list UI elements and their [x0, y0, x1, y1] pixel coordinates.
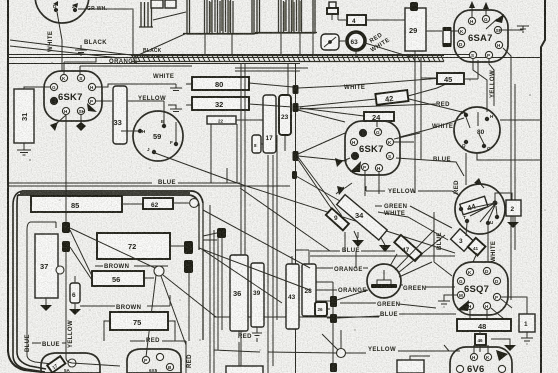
capacitor 1 [519, 314, 535, 332]
wire stubs from IF cans [205, 33, 313, 55]
eyelet circle right of 56 [154, 266, 164, 276]
capacitor 41 [468, 238, 486, 256]
wire H of 6SA7 down right side [503, 48, 515, 300]
resistor 45 [437, 73, 464, 84]
junction blob G on right border [184, 241, 193, 254]
capacitor 46 [475, 334, 486, 345]
ground under 31 [17, 143, 31, 155]
bottom-left section border right [199, 203, 203, 340]
capacitor 39 [251, 263, 264, 327]
wire 29 to 65 to K [426, 30, 458, 32]
wire 75 sides [104, 321, 175, 341]
wire blue horizontal [8, 183, 290, 186]
tube 6SK7 first [44, 71, 102, 121]
ground arrow below 34 b [381, 238, 385, 245]
ground left of resistor 80 [170, 84, 182, 91]
wire 72 right to border [144, 246, 186, 278]
small rect bottom mid [397, 360, 424, 373]
eyelet small circle bottom [337, 349, 346, 358]
junction blob A [293, 85, 299, 94]
wire vertical from 6SK7a H down to blobs [65, 115, 67, 358]
wire vertical to orange [345, 232, 356, 268]
wire blue2 long [214, 314, 456, 317]
wire 24 left [300, 108, 377, 127]
capacitor 36 [230, 255, 248, 331]
resistor 85 [31, 196, 122, 212]
junction blob D [292, 171, 297, 179]
shielded cable band [131, 56, 444, 62]
keyway arrow top of 44 [474, 178, 482, 185]
resistor 42 angled [375, 90, 408, 105]
wires fanning from junction B [298, 99, 436, 122]
resistor 31 [14, 89, 34, 143]
ground under 37 [45, 298, 47, 305]
wire horizontal to blob [203, 231, 226, 240]
wire left column to yellow bottom [66, 350, 336, 366]
resistor 9 angled [326, 208, 349, 230]
speaker plug circle (top left, partial) [35, 0, 89, 23]
wire from junction D to 34 [296, 176, 340, 201]
junction blob B [293, 103, 299, 112]
tube 6V6 [450, 347, 512, 373]
wire brown1 [95, 265, 168, 267]
capacitor 65 beside 6SA7 [443, 27, 452, 47]
IF transformer can 2 [255, 0, 317, 33]
wire orange2 [310, 289, 367, 291]
wire 85 to 62 to eyelet [122, 203, 189, 204]
resistor 22 [207, 116, 236, 124]
coil 63 [347, 32, 365, 50]
wire blue mid [310, 251, 455, 256]
ground under 2 [512, 216, 514, 222]
wires right of 6SK7b [394, 133, 420, 142]
wire SP to ground [502, 26, 523, 30]
oscillator coil 80 circle [454, 107, 500, 153]
volume control circle [367, 264, 401, 298]
wire blobs to 56 [70, 228, 155, 280]
resistor 56 [92, 271, 144, 286]
wire red bottom [130, 340, 186, 342]
center vertical bus [237, 63, 296, 373]
right vertical wire bundle mid [268, 135, 277, 373]
wire white to osc [400, 118, 464, 137]
tuning capacitor plates [139, 2, 153, 27]
capacitor 28 [302, 264, 316, 316]
wire J of 59 long diagonal to lower right [155, 153, 455, 253]
wire P H down to resistors [365, 171, 379, 196]
capacitor 29 [405, 8, 426, 51]
tube 6SK7 second [345, 121, 400, 175]
resistor 24 [364, 112, 394, 122]
wire H of 59 to 33 [121, 130, 138, 132]
wire 45 ends [421, 60, 478, 79]
resistor 62 [143, 198, 173, 209]
ground arrow below 6SK7 pin SH [80, 115, 82, 123]
wire blue bottom left [27, 343, 66, 364]
ground arrow lower left of 6SK7b [337, 186, 345, 195]
ground under 1 [521, 332, 533, 344]
resistor 48 [457, 319, 511, 331]
wire eyelet fan down [146, 275, 216, 357]
capacitor 2 [506, 200, 521, 216]
IF transformer can 1 [183, 0, 258, 34]
bottom-left section border top [18, 191, 203, 206]
wire yellow to 44 [366, 186, 460, 196]
chassis outer border right edge [541, 0, 545, 373]
wire volume to 47 fan [390, 230, 445, 277]
junction blob top of 29 [410, 2, 418, 11]
shielded cable lead-in diagonals [10, 40, 131, 58]
wire white vertical 44 to 6SQ7 [466, 223, 488, 262]
ground left of resistor 32 [168, 105, 182, 112]
bottom-left section border left [13, 191, 46, 372]
wire across to 6SQ7 area [434, 212, 452, 276]
resistor 72 [97, 233, 170, 259]
wire bottom connections [333, 322, 430, 372]
wire 28 43 tops [292, 250, 309, 264]
junction blob J [330, 296, 337, 307]
ground left of 6SQ7 [438, 295, 457, 307]
capacitor 33 [113, 86, 127, 144]
resistor 80 [192, 77, 249, 90]
wire 29 down verticals [415, 51, 421, 193]
junction blob I [217, 228, 226, 238]
wire red vertical osc to 44 [466, 153, 541, 185]
wire red vertical [186, 273, 189, 373]
wire YELLOW vertical from S [473, 59, 487, 112]
wires fanning from junction A white [298, 77, 455, 88]
capacitor 26 [315, 302, 327, 316]
capacitor 23 [279, 95, 291, 135]
grommet 62 top [321, 34, 339, 50]
tube 6SQ7 [453, 262, 508, 315]
wire 36 bottom [239, 331, 257, 366]
wire P to E (yellow) [96, 101, 164, 124]
pin Z of speaker plug [72, 3, 78, 12]
capacitor 3 [451, 229, 474, 251]
wire BLACK to 6SK7 grid cap [64, 57, 96, 74]
capacitor 4 [347, 15, 366, 25]
ground arrow left of 6SK7b [335, 158, 343, 167]
eyelet circle right of 62 [190, 199, 199, 208]
wires around 26 28 [316, 282, 380, 363]
wire vertical right of 59 [211, 124, 227, 183]
main horizontal bus wires [8, 55, 541, 72]
ground right of 6SA7 [517, 26, 529, 32]
junction blob K [330, 314, 337, 323]
wire from Z to right then down [78, 9, 133, 55]
capacitor 43 [286, 264, 299, 329]
resistor 47 angled [394, 235, 421, 261]
tube 5A rectifier socket [41, 353, 100, 373]
ground under BLACK [75, 45, 87, 55]
wires fanning from junction C [297, 133, 347, 216]
wire diag from gang to IF can [134, 12, 187, 57]
wire blue from 6SK7b S pin [396, 158, 464, 176]
junction blob H on right border [184, 260, 193, 273]
pin D of speaker plug [53, 1, 58, 12]
capacitor 6 [70, 283, 80, 303]
wire 4 to 29 [338, 14, 405, 20]
wire 31 to 6SK7 G [24, 87, 51, 89]
wires 80 32 22 to junction column [236, 83, 293, 144]
capacitor 37 [35, 234, 58, 298]
small rect on gang top b [165, 0, 176, 8]
ground right of 46 [491, 339, 510, 345]
wire 63 stem [332, 41, 414, 58]
wire green2 [340, 303, 436, 308]
junction blob E [62, 222, 70, 233]
junction blob C [293, 151, 299, 161]
junction blob bottom mid [330, 363, 337, 372]
wire 42 to osc coil [408, 80, 466, 113]
small rect on gang top a [151, 0, 163, 8]
wire 6V6 top [474, 345, 488, 353]
arrow top b [483, 2, 489, 9]
wire 6SK7 plate white [96, 84, 176, 87]
wire green right [401, 285, 455, 287]
wire green white to 44 [375, 206, 452, 240]
arrow top a [469, 1, 475, 8]
wires top of 6SA7 [472, 4, 486, 17]
socket 59 circle [133, 111, 183, 161]
wire orange horizontal [80, 66, 192, 74]
resistor 75 [110, 312, 168, 330]
ground arrow below 6SK7 pin H [56, 115, 66, 124]
wire orange1 to volume [310, 267, 368, 269]
trimmer circle 44 [455, 184, 505, 234]
wire RED right of osc [500, 119, 541, 121]
resistor 32 [192, 97, 249, 110]
wire eyelet up [322, 330, 341, 350]
ground arrow below 34 a [354, 231, 358, 240]
left vertical wire bundle [210, 205, 222, 373]
small circle on wire [56, 266, 64, 274]
capacitor 17 [263, 95, 276, 153]
wire 44 to 2 [495, 193, 512, 201]
wire 6 top [74, 276, 76, 283]
wire F of 59 stem [175, 122, 177, 142]
tube 6SA7 [454, 10, 508, 62]
long diagonal wires into bottom left [199, 188, 330, 303]
wire WHITE vertical from D to 6SK7 [57, 12, 62, 71]
resistor 34 angled [337, 195, 387, 240]
inner border around 37 [27, 222, 56, 355]
ground under 6 [74, 303, 76, 309]
wire 46 stems [479, 331, 481, 352]
electrolytic capacitor top middle [327, 2, 338, 20]
small rect bottom under 36 [226, 366, 263, 373]
junction blob F [62, 241, 70, 252]
wire brown2 [80, 295, 170, 306]
capacitor 8 [252, 135, 261, 153]
wire P of 6SQ7 to 1 [501, 297, 527, 314]
wire H pins down to 48 [470, 308, 504, 319]
chassis outer border left edge [8, 0, 42, 372]
wire P of 6SA7 down [489, 59, 494, 106]
tube 6X5 socket [127, 349, 181, 373]
ground under 39 [252, 327, 262, 336]
wire yellow bottom long [346, 345, 460, 353]
